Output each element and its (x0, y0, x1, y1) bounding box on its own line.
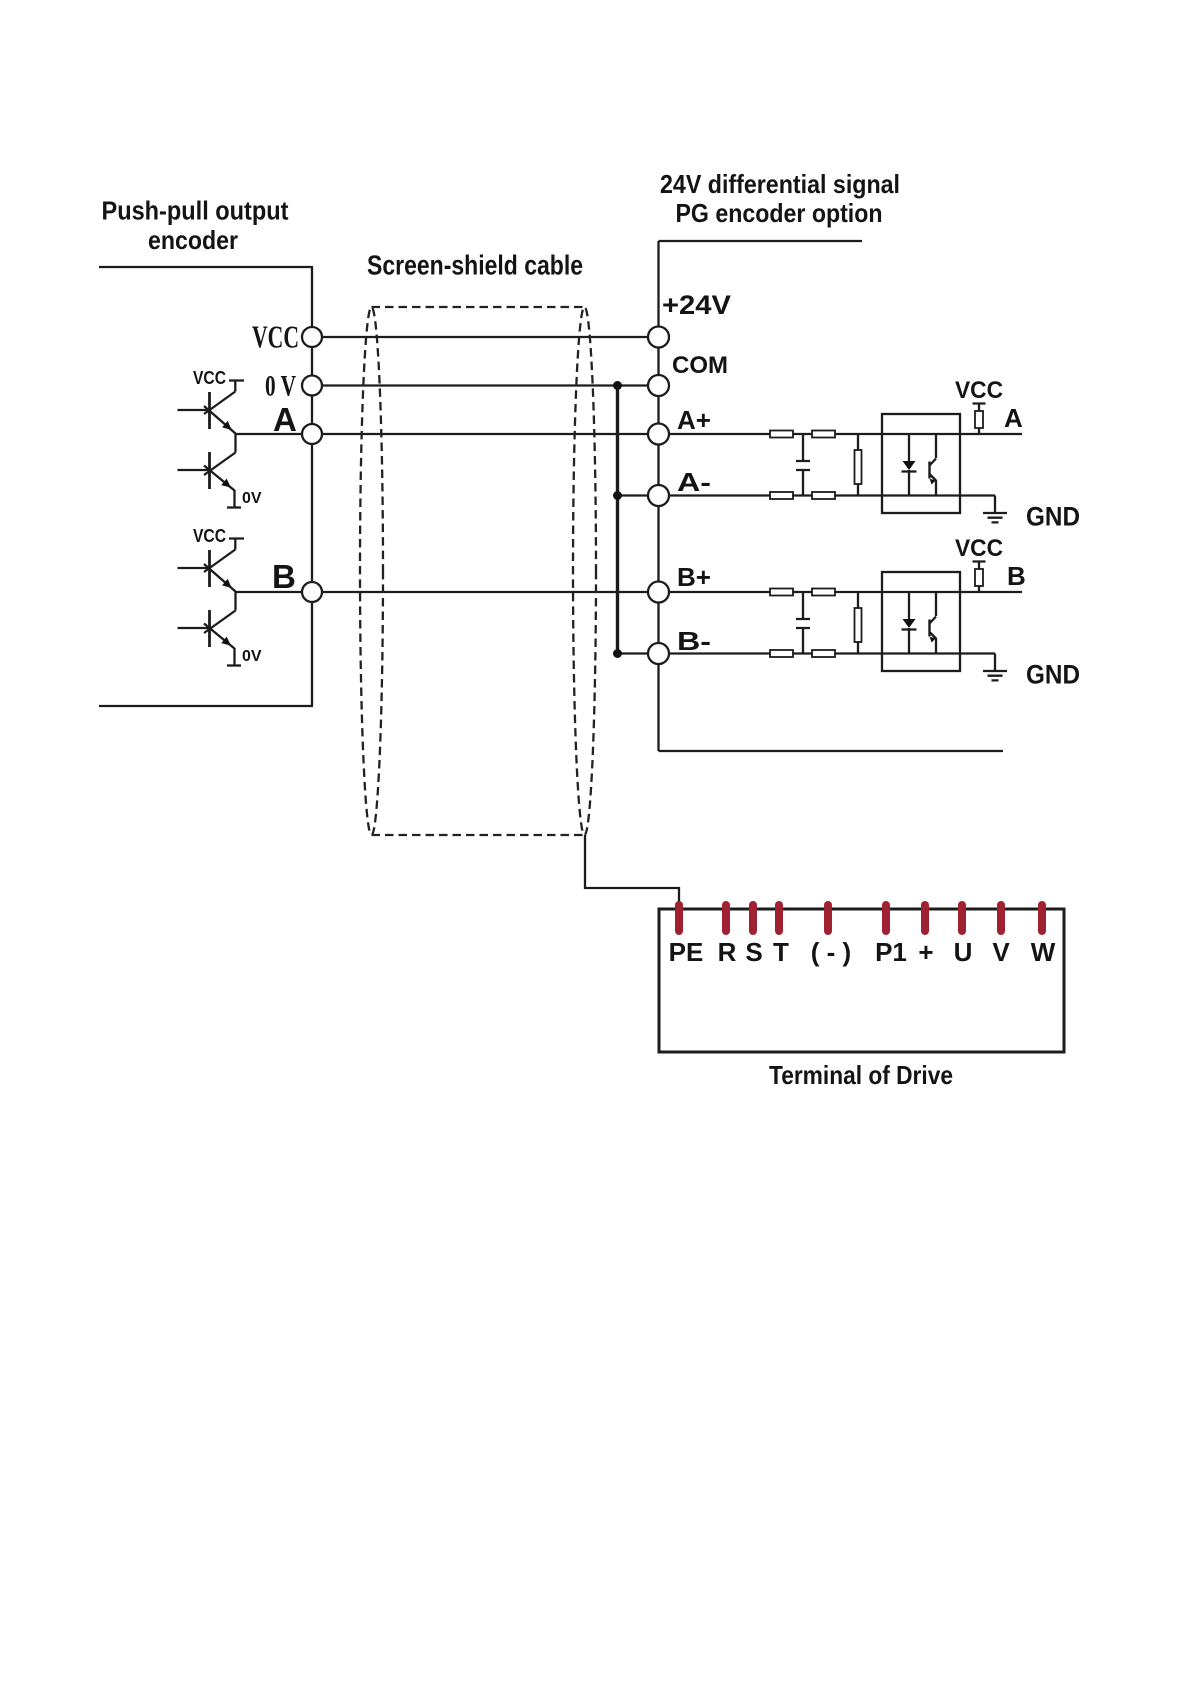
terminal B- circle (648, 643, 669, 664)
shield cable left ellipse (360, 307, 383, 835)
ground (channel B) (983, 654, 1007, 681)
wire Q1 emitter to Q2 collector (stage A) (234, 433, 236, 453)
svg-text:U: U (954, 937, 973, 967)
svg-text:VCC: VCC (193, 526, 226, 546)
svg-text:A: A (1004, 403, 1023, 433)
wire VCC to +24V (312, 336, 659, 338)
0V rail bar (stage A) (227, 506, 241, 508)
wire A- line (618, 494, 996, 496)
optocoupler U2 box (882, 572, 960, 671)
svg-text:0V: 0V (242, 490, 262, 507)
terminal VCC circle (302, 327, 322, 347)
svg-text:Push-pull output: Push-pull output (102, 198, 289, 226)
svg-text:0V: 0V (242, 648, 262, 665)
svg-text:+24V: +24V (662, 290, 731, 320)
shield cable right ellipse (573, 307, 596, 835)
LED D2 (opto B) (902, 592, 917, 654)
svg-text:PE: PE (669, 937, 704, 967)
svg-text:Terminal of Drive: Terminal of Drive (769, 1060, 953, 1090)
terminal pin R (722, 901, 730, 935)
wire 0V to COM (312, 384, 659, 386)
resistor R6 (A pull-up to VCC) (973, 404, 986, 435)
push-pull stage B (178, 526, 262, 666)
svg-text:Screen-shield cable: Screen-shield cable (367, 250, 583, 281)
wire A to A+ (236, 433, 1022, 435)
optocoupler U1 box (882, 414, 960, 513)
VCC rail tick (stage A) (229, 381, 244, 392)
wire encoder bottom (99, 705, 313, 707)
wire Q4 emitter to 0V (stage B) (233, 648, 235, 666)
resistor R8 (B+ series 2) (812, 589, 835, 596)
terminal pin (-) (824, 901, 832, 935)
wire Q2 emitter to 0V (stage A) (233, 490, 235, 508)
svg-text:VCC: VCC (193, 368, 226, 388)
transistor Q1 upper (stage A) (178, 392, 236, 434)
terminal pin PE (675, 901, 683, 935)
terminal pin T (775, 901, 783, 935)
wire Q3 emitter to Q4 collector (stage B) (234, 591, 236, 611)
terminal pin V (997, 901, 1005, 935)
transistor Q3 upper (stage B) (178, 550, 236, 592)
svg-text:PG encoder option: PG encoder option (676, 198, 883, 228)
resistor R10 (B- series 2) (812, 650, 835, 657)
svg-text:B: B (272, 558, 296, 595)
svg-text:B-: B- (677, 626, 711, 656)
terminal B circle (302, 582, 322, 602)
junction dot on 0V (613, 381, 622, 390)
phototransistor (opto B) (930, 592, 937, 654)
receiver channel A (770, 377, 1080, 532)
resistor R11 (B termination) (855, 592, 862, 654)
junction dot on B- (613, 649, 622, 658)
resistor R2 (A+ series 2) (812, 431, 835, 438)
wire PG option bottom (659, 750, 1004, 752)
svg-text:VCC: VCC (955, 535, 1003, 562)
terminal of drive box (659, 909, 1064, 1052)
resistor R12 (B pull-up to VCC) (973, 562, 986, 593)
capacitor C2 (B differential) (796, 592, 810, 654)
svg-text:A-: A- (677, 467, 711, 497)
wire common junction vertical (616, 386, 619, 654)
svg-text:B: B (1007, 561, 1026, 591)
svg-text:B+: B+ (677, 562, 711, 592)
terminal pin S (749, 901, 757, 935)
svg-text:A: A (273, 401, 297, 438)
terminal +24V circle (648, 327, 669, 348)
shield cable bottom dashed line (372, 834, 585, 836)
svg-text:24V differential signal: 24V differential signal (660, 169, 900, 199)
terminal pin W (1038, 901, 1046, 935)
svg-text:GND: GND (1026, 660, 1080, 690)
terminal A circle (302, 424, 322, 444)
svg-text:T: T (773, 937, 789, 967)
receiver channel B (770, 535, 1080, 690)
resistor R7 (B+ series 1) (770, 589, 793, 596)
svg-text:P1: P1 (875, 937, 907, 967)
wire encoder top (99, 266, 313, 268)
svg-text:GND: GND (1026, 502, 1080, 532)
svg-text:COM: COM (672, 352, 728, 379)
wire B- line (618, 652, 996, 654)
svg-text:W: W (1031, 937, 1056, 967)
transistor Q4 lower (stage B) (178, 610, 236, 649)
terminal 0V circle (302, 376, 322, 396)
junction dot on A- (613, 491, 622, 500)
transistor Q2 lower (stage A) (178, 452, 236, 491)
terminal A- circle (648, 485, 669, 506)
shield drain wire to PE (585, 835, 679, 905)
terminal pin U (958, 901, 966, 935)
svg-text:S: S (745, 937, 762, 967)
phototransistor (opto A) (930, 434, 937, 496)
terminal B+ circle (648, 582, 669, 603)
VCC rail tick (stage B) (229, 539, 244, 550)
resistor R4 (A- series 2) (812, 492, 835, 499)
svg-text:( - ): ( - ) (811, 937, 851, 967)
resistor R5 (A termination) (855, 434, 862, 496)
resistor R1 (A+ series 1) (770, 431, 793, 438)
wire PG option top (659, 240, 863, 242)
0V rail bar (stage B) (227, 664, 241, 666)
wire encoder left bus (311, 267, 313, 706)
push-pull stage A (178, 368, 262, 508)
label: Push-pull output encoder (102, 198, 289, 256)
svg-text:V: V (992, 937, 1010, 967)
terminal pin P1 (882, 901, 890, 935)
wire B to B+ (236, 591, 1022, 593)
wire PG right bus (657, 241, 659, 751)
svg-text:0 V: 0 V (265, 370, 296, 403)
LED D1 (opto A) (902, 434, 917, 496)
resistor R3 (A- series 1) (770, 492, 793, 499)
capacitor C1 (A differential) (796, 434, 810, 496)
terminal COM circle (648, 375, 669, 396)
svg-text:encoder: encoder (148, 225, 238, 255)
svg-text:+: + (918, 937, 933, 967)
svg-text:VCC: VCC (252, 319, 299, 355)
shield cable top dashed line (372, 306, 585, 308)
terminal pin + (921, 901, 929, 935)
svg-text:VCC: VCC (955, 377, 1003, 404)
svg-text:R: R (718, 937, 737, 967)
label: 24V differential signal / PG encoder option (660, 169, 900, 228)
resistor R9 (B- series 1) (770, 650, 793, 657)
svg-text:A+: A+ (677, 405, 711, 435)
ground (channel A) (983, 496, 1007, 523)
terminal A+ circle (648, 424, 669, 445)
